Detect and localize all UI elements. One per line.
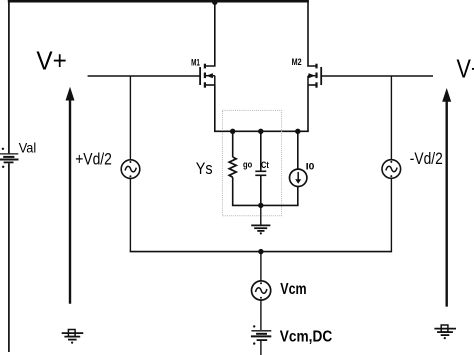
wire: down to center ground [260,205,262,225]
ground (left, net 0) [62,330,84,344]
junction: capacitor tap [258,129,263,134]
junction: resistor tap [230,129,235,134]
wire: Vcm source to battery [260,300,262,330]
svg-text:V−: V− [457,53,474,83]
ac source Vcm [252,281,271,300]
junction: M1 drain on top rail [212,0,217,5]
junction: ground tap [258,203,263,208]
wire: M1 gate lead [88,75,200,77]
gate bar [320,67,322,85]
ac source -Vd/2 [382,160,401,179]
svg-text:Ct: Ct [261,160,269,171]
junction: Vcm tap [258,249,263,254]
wire: top V+ supply rail [8,0,309,3]
junction: current source tap [295,129,300,134]
svg-text:go: go [243,160,252,171]
wire: left supply vertical (top section) [8,0,10,153]
transistor M2 (mirrored) [308,0,321,88]
drain lead [206,0,215,66]
body-to-source vertical [214,76,216,85]
capacitor Ct [255,131,266,205]
ground (center) [251,225,270,234]
svg-text:M1: M1 [191,58,200,68]
svg-text:Vcm: Vcm [280,281,306,298]
svg-text:M2: M2 [292,57,302,67]
channel contact: source [315,82,317,87]
wire: Ys bottom rail [232,204,299,206]
svg-text:Vcm,DC: Vcm,DC [280,328,333,345]
svg-text:+Vd/2: +Vd/2 [75,150,112,168]
wire: M2 gate lead [321,75,433,77]
channel contact: drain [204,64,206,69]
wire: below -Vd/2 source to bottom rail [390,178,392,251]
body lead with arrow [206,75,215,77]
svg-text:Val: Val [19,140,37,156]
wire: left supply vertical (bottom section) [8,163,10,352]
channel contact: body [204,73,206,79]
arrow +Vd/2 [66,87,75,304]
resistor go [229,131,236,205]
drain lead [308,0,316,66]
wire: below +Vd/2 source to bottom rail [129,178,131,251]
svg-text:-Vd/2: -Vd/2 [410,150,443,168]
arrow -Vd/2 [442,88,451,307]
battery Val [0,148,19,168]
wire: M2 source down to common rail [307,85,309,131]
battery Vcm,DC [251,325,271,345]
svg-text:I0: I0 [306,161,315,172]
wire: common source rail [214,130,309,132]
ground (right, net 0) [434,325,456,339]
channel contact: drain [315,64,317,69]
wire: down to Vcm source [260,252,262,281]
wire: M1 source down to common rail [214,85,216,131]
svg-text:Ys: Ys [196,160,213,178]
source lead [206,84,215,86]
body-to-source vertical [307,76,309,85]
ac source +Vd/2 [121,160,140,179]
current source I0 [290,131,307,205]
wire: battery to bottom edge [260,341,262,355]
wire: drop to -Vd/2 source [390,76,392,160]
dotted box Ys [222,110,281,215]
wire: bottom common rail [130,251,392,253]
svg-text:V+: V+ [36,45,66,75]
channel contact: source [204,82,206,87]
source lead [308,84,316,86]
wire: drop to +Vd/2 source [129,76,131,160]
gate bar [199,67,201,85]
body lead with arrow [308,75,315,77]
channel contact: body [315,73,317,79]
transistor M1 [200,0,215,88]
